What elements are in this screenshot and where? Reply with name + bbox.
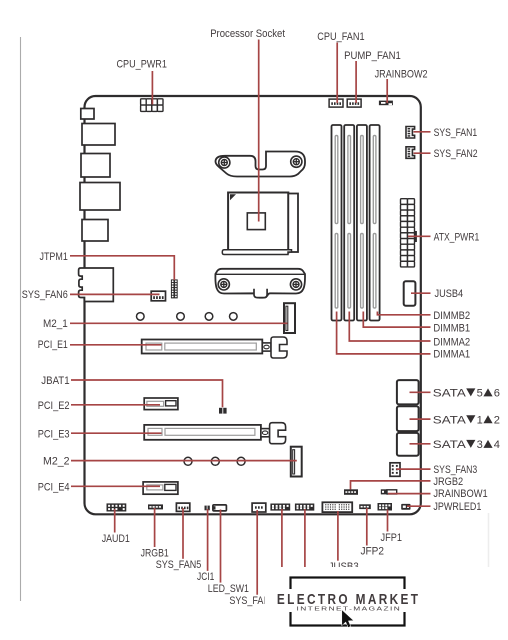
connector PUMP_FAN1: [347, 99, 361, 107]
screw bottom-right: [290, 279, 301, 290]
connector JFP1: [378, 503, 393, 511]
svg-text:SATA: SATA: [433, 414, 467, 426]
svg-text:PCI_E3: PCI_E3: [38, 429, 70, 441]
connector LED_SW1: [213, 505, 227, 511]
svg-text:JBAT1: JBAT1: [41, 375, 69, 387]
leader Processor Socket: [258, 40, 260, 222]
connector JRGB1: [148, 504, 163, 509]
svg-text:SYS_FAN5: SYS_FAN5: [156, 559, 202, 571]
watermark mouse cursor: [342, 610, 354, 628]
PCI_E3 x16 slot: [144, 425, 261, 440]
leader JRGB1: [154, 508, 156, 547]
leader SYS_FAN4: [256, 510, 258, 595]
svg-text:JRGB2: JRGB2: [433, 476, 463, 488]
rear IO port small: [81, 109, 94, 120]
svg-text:INTERNET-MAGAZIN: INTERNET-MAGAZIN: [297, 606, 402, 612]
svg-text:PCI_E4: PCI_E4: [38, 482, 70, 494]
svg-text:SATA: SATA: [433, 439, 467, 451]
watermark text band: [270, 589, 426, 612]
svg-text:SYS_FAN1: SYS_FAN1: [434, 127, 478, 139]
svg-text:1: 1: [477, 414, 483, 426]
connector JFP2: [359, 504, 371, 509]
svg-text:M2_2: M2_2: [43, 456, 70, 468]
connector JTPM1: [171, 279, 178, 298]
svg-text:3: 3: [477, 439, 483, 451]
connector SYS_FAN3: [390, 463, 400, 477]
svg-text:JTPM1: JTPM1: [40, 251, 68, 263]
leader JTPM1: [70, 256, 174, 280]
connector JUSB1: [295, 504, 314, 511]
leader JUSB1: [304, 509, 306, 567]
leader JUSB3: [337, 511, 339, 561]
svg-text:SYS_FAN6: SYS_FAN6: [22, 289, 68, 301]
rear IO audio block: [79, 268, 114, 302]
rear IO port 2: [82, 124, 115, 146]
svg-text:PCI_E1: PCI_E1: [38, 339, 68, 351]
socket right lever rect: [288, 194, 298, 253]
leader DIMMB1: [363, 312, 430, 328]
leader PCI_E4: [71, 485, 160, 487]
svg-text:M2_1: M2_1: [43, 318, 68, 330]
svg-text:2: 2: [494, 414, 500, 426]
leader DIMMB2: [377, 312, 430, 315]
svg-text:Processor Socket: Processor Socket: [210, 28, 285, 40]
leader M2_2: [71, 460, 297, 462]
connector SATA 5/6: [397, 380, 419, 404]
svg-text:DIMMB1: DIMMB1: [433, 322, 470, 334]
svg-text:SATA: SATA: [433, 387, 467, 399]
page scan edge line right: [488, 513, 490, 640]
connector JUSB4: [404, 281, 416, 306]
svg-text:CPU_FAN1: CPU_FAN1: [317, 31, 364, 43]
svg-text:ATX_PWR1: ATX_PWR1: [434, 232, 480, 244]
leader PUMP_FAN1: [355, 61, 357, 103]
motherboard outline: [85, 96, 421, 514]
watermark white backdrop: [265, 567, 508, 640]
svg-text:JFP2: JFP2: [361, 546, 385, 558]
page scan edge line left: [20, 37, 22, 601]
leader PCI_E1: [70, 344, 162, 346]
svg-text:5: 5: [477, 387, 483, 399]
leader DIMMA2: [349, 312, 430, 342]
leader SYS_FAN1: [414, 131, 431, 133]
screw top-left: [219, 157, 230, 168]
socket top retention bracket: [216, 152, 306, 177]
leader SYS_FAN3: [397, 468, 431, 470]
socket bottom bar: [222, 250, 291, 255]
svg-text:DIMMB2: DIMMB2: [433, 310, 470, 322]
leader PCI_E2: [71, 404, 160, 406]
svg-text:JAUD1: JAUD1: [102, 533, 130, 545]
leader JFP2: [366, 508, 368, 546]
svg-text:PUMP_FAN1: PUMP_FAN1: [344, 50, 401, 62]
svg-text:JCI1: JCI1: [197, 571, 214, 583]
leader CPU_FAN1: [336, 43, 338, 104]
connector JBAT1: [219, 408, 227, 414]
DIMM slots DIMMA1 DIMMA2 DIMMB1 DIMMB2: [332, 125, 380, 321]
svg-text:6: 6: [494, 387, 500, 399]
svg-text:JUSB4: JUSB4: [435, 288, 464, 300]
svg-text:DIMMA2: DIMMA2: [433, 336, 470, 348]
rear IO port 5: [82, 220, 108, 242]
connector SATA 3/4: [397, 433, 419, 456]
socket body square: [228, 193, 288, 253]
leader JCI1: [207, 509, 209, 571]
socket bottom retention bracket: [215, 269, 305, 298]
connector SYS_FAN5: [176, 503, 189, 511]
connector SYS_FAN1: [406, 127, 415, 139]
leader SATA 3/4: [410, 443, 431, 445]
leader SYS_FAN6: [70, 293, 160, 295]
M2_1 standoff holes: [137, 313, 238, 321]
connector JPWRLED1: [401, 504, 410, 510]
connector JUSB2: [270, 504, 290, 511]
leader JBAT1: [71, 380, 223, 407]
connector CPU_PWR1 (8-pin, 4x2 grid): [141, 99, 163, 112]
leader SATA 1/2: [410, 418, 431, 420]
connector SYS_FAN6: [151, 291, 165, 301]
socket corner triangle: [230, 194, 236, 200]
leader LED_SW1: [220, 510, 222, 583]
PCI_E1 latch: [262, 337, 287, 358]
leader JRAINBOW1: [388, 493, 431, 495]
svg-text:SYS_FAN3: SYS_FAN3: [433, 464, 477, 476]
leader DIMMA1: [337, 312, 431, 354]
connector JRAINBOW1: [381, 489, 397, 494]
connector JUSB3 (USB 3.2 header): [322, 502, 352, 512]
connector ATX_PWR1 (24-pin): [415, 231, 417, 242]
screw top-right: [291, 156, 302, 167]
rear IO port 4: [80, 183, 120, 211]
M2_2 standoff holes: [184, 457, 245, 465]
leader CPU_PWR1: [151, 71, 153, 105]
svg-text:JRGB1: JRGB1: [141, 547, 169, 559]
leader JUSB2: [281, 509, 283, 567]
connector JCI1: [205, 506, 210, 511]
leader JFP1: [387, 510, 389, 532]
connector JRAINBOW2: [379, 101, 393, 106]
svg-text:PCI_E2: PCI_E2: [38, 400, 70, 412]
connector JAUD1: [107, 503, 127, 511]
svg-text:LED_SW1: LED_SW1: [208, 583, 249, 595]
svg-text:JPWRLED1: JPWRLED1: [433, 501, 481, 513]
svg-text:JRAINBOW2: JRAINBOW2: [375, 68, 428, 80]
svg-text:JFP1: JFP1: [381, 532, 403, 544]
leader JRAINBOW2: [386, 79, 388, 103]
bracket inner line bottom: [216, 273, 305, 275]
svg-text:DIMMA1: DIMMA1: [433, 349, 470, 361]
leader M2_1: [70, 322, 288, 324]
PCI_E4 x1 slot: [143, 482, 178, 494]
svg-text:JRAINBOW1: JRAINBOW1: [433, 488, 487, 500]
leader JAUD1: [114, 509, 116, 533]
leader PCI_E3: [71, 432, 162, 434]
leader JUSB4: [411, 292, 431, 294]
PCI_E3 latch: [261, 423, 286, 444]
socket inner square: [247, 213, 265, 230]
svg-text:4: 4: [494, 439, 500, 451]
leader JRGB2: [351, 481, 431, 490]
leader ATX_PWR1: [408, 235, 431, 237]
svg-text:CPU_PWR1: CPU_PWR1: [117, 59, 167, 71]
leader SYS_FAN2: [414, 152, 431, 154]
leader SYS_FAN5: [182, 508, 184, 559]
PCI_E1 x16 slot: [142, 340, 263, 354]
M2_1 slot connector: [284, 303, 295, 333]
leader SATA 5/6: [410, 391, 431, 393]
connector CPU_FAN1: [329, 99, 343, 107]
M2_2 slot connector: [291, 447, 302, 477]
screw bottom-left: [218, 279, 229, 290]
connector SATA 1/2: [397, 406, 419, 431]
connector SYS_FAN4: [252, 503, 266, 512]
svg-text:SYS_FAN2: SYS_FAN2: [434, 148, 478, 160]
watermark border box: [291, 578, 405, 626]
connector SYS_FAN2: [406, 147, 415, 159]
bracket middle tab: [254, 288, 267, 298]
rear IO port 3: [81, 154, 110, 178]
PCI_E2 x1 slot: [144, 398, 178, 410]
leader JPWRLED1: [407, 505, 431, 507]
connector JRGB2: [344, 489, 358, 495]
